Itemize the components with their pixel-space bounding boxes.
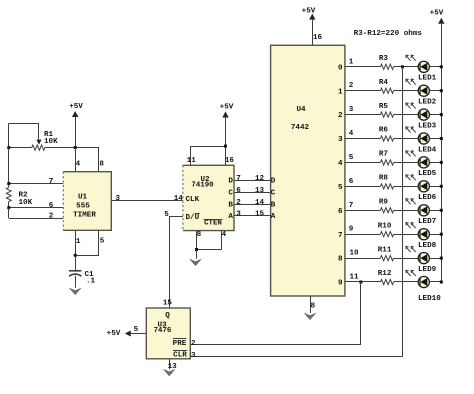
- LED8: [406, 223, 437, 251]
- svg-text:7: 7: [236, 175, 241, 183]
- decoder U4 7442 box: [271, 45, 345, 296]
- svg-text:5: 5: [349, 154, 354, 162]
- svg-text:1: 1: [76, 238, 81, 246]
- LED7: [406, 199, 437, 227]
- power +5V (LED rail): [430, 9, 445, 282]
- svg-text:5: 5: [134, 326, 139, 334]
- svg-text:CLK: CLK: [186, 196, 200, 204]
- node rail junction 8: [440, 233, 443, 236]
- wire left rail: [8, 148, 10, 187]
- svg-text:11: 11: [349, 274, 359, 282]
- node U2 gnd junction: [195, 248, 198, 259]
- wire U4 output 8 (pin 10): [345, 250, 381, 259]
- wire R5 to LED3: [394, 114, 420, 116]
- svg-text:R6: R6: [379, 127, 389, 135]
- LED3: [406, 103, 437, 130]
- svg-text:R5: R5: [379, 103, 389, 111]
- node output0 junction: [401, 65, 404, 68]
- wire U4 output 9 (pin 11): [345, 274, 381, 282]
- wire R6 to LED4: [394, 138, 420, 140]
- resistor R3: [379, 55, 394, 69]
- svg-text:B: B: [228, 202, 233, 210]
- svg-text:R4: R4: [379, 79, 389, 87]
- svg-text:B: B: [271, 202, 276, 210]
- wire B bus: [234, 199, 271, 207]
- wire output9 to U3 PRE: [190, 281, 362, 345]
- svg-text:3: 3: [115, 195, 120, 203]
- node +5V junction: [74, 146, 77, 149]
- svg-text:LED3: LED3: [418, 122, 437, 130]
- svg-text:R9: R9: [379, 199, 389, 207]
- svg-text:A: A: [271, 213, 276, 221]
- resistor R11: [378, 246, 394, 260]
- svg-text:+5V: +5V: [302, 7, 316, 15]
- wire U1 pin 7: [9, 178, 64, 186]
- svg-text:12: 12: [255, 175, 265, 183]
- ground (U3): [164, 369, 175, 376]
- svg-text:8: 8: [311, 302, 316, 310]
- wire U1 pin 6: [9, 202, 64, 211]
- svg-text:7: 7: [338, 232, 343, 240]
- svg-text:6: 6: [338, 208, 343, 216]
- svg-text:LED5: LED5: [418, 170, 437, 178]
- svg-text:1: 1: [349, 58, 354, 66]
- svg-text:9: 9: [349, 226, 354, 234]
- wire R7 to LED5: [394, 162, 420, 164]
- svg-text:D/U: D/U: [186, 214, 200, 222]
- svg-text:C: C: [271, 190, 276, 198]
- svg-text:6: 6: [49, 202, 54, 210]
- svg-text:PRE: PRE: [173, 340, 187, 348]
- svg-text:LED10: LED10: [418, 295, 441, 303]
- node rail junction 3: [440, 113, 443, 116]
- wire U4 output 7 (pin 9): [345, 226, 381, 235]
- svg-text:A: A: [228, 213, 233, 221]
- svg-text:R7: R7: [379, 151, 389, 159]
- U2 CTEN pin label: [204, 220, 223, 228]
- U3 pin 15 label: [163, 300, 173, 308]
- wire LED5 to rail: [429, 162, 441, 164]
- svg-text:R3-R12=220 ohms: R3-R12=220 ohms: [354, 30, 423, 38]
- svg-text:8: 8: [99, 161, 104, 169]
- svg-text:4: 4: [76, 161, 81, 169]
- LED9: [406, 246, 437, 274]
- U4 input letters: [271, 178, 276, 222]
- wire LED1 to rail: [429, 66, 441, 68]
- svg-text:16: 16: [225, 157, 235, 165]
- svg-text:D: D: [271, 178, 276, 186]
- resistor R7: [379, 151, 394, 165]
- wire U4 pin 8 ground: [311, 296, 316, 313]
- wire LED4 to rail: [429, 138, 441, 140]
- U3 pin 2 label: [191, 340, 196, 348]
- svg-text:8: 8: [197, 231, 202, 239]
- svg-text:13: 13: [255, 187, 265, 195]
- wire R9 to LED7: [394, 210, 420, 212]
- power +5V (U3 pin 5): [107, 326, 147, 338]
- U3 PRE pin label: [173, 339, 187, 349]
- wire U4 output 1 (pin 2): [345, 82, 381, 90]
- svg-text:3: 3: [236, 210, 241, 218]
- wire U1 pin 2: [9, 208, 64, 221]
- wire U1 pin 8 drop: [99, 148, 105, 172]
- LED4: [406, 127, 437, 155]
- wire U4 output 2 (pin 3): [345, 106, 381, 114]
- svg-text:8: 8: [338, 256, 343, 264]
- svg-text:9: 9: [338, 280, 343, 288]
- svg-text:.1: .1: [86, 278, 96, 286]
- svg-text:LED1: LED1: [418, 75, 437, 83]
- wire U4 output 3 (pin 4): [345, 130, 381, 139]
- wire U4 output 0 (pin 1): [345, 58, 381, 66]
- note R3-R12=220 ohms: [354, 30, 423, 38]
- svg-text:10K: 10K: [44, 138, 58, 146]
- U4 output digits: [338, 64, 343, 287]
- node rail junction 9: [440, 257, 443, 260]
- svg-text:2: 2: [49, 212, 54, 220]
- svg-text:LED8: LED8: [418, 242, 437, 250]
- svg-text:15: 15: [255, 210, 265, 218]
- U3 CLR pin label: [173, 351, 187, 360]
- resistor R6: [379, 127, 394, 141]
- resistor R8: [379, 175, 394, 189]
- svg-text:74190: 74190: [191, 182, 214, 190]
- svg-text:2: 2: [236, 199, 241, 207]
- node rail junction 7: [440, 209, 443, 212]
- wire R1 top loop: [9, 124, 40, 148]
- U2 label: [191, 176, 214, 190]
- node R1-left junction: [7, 146, 10, 149]
- svg-text:LED7: LED7: [418, 218, 437, 226]
- node pin6 junction: [7, 206, 10, 209]
- wire R12 to LED10: [394, 281, 420, 283]
- wire U1 pin 1: [76, 230, 81, 255]
- U2 CLK pin label: [186, 196, 200, 204]
- svg-text:R10: R10: [378, 222, 392, 230]
- svg-text:6: 6: [236, 187, 241, 195]
- resistor R1: [32, 131, 58, 150]
- ground (C1): [70, 288, 81, 295]
- counter U2 74190 box: [183, 165, 234, 230]
- wire output0 to U3 CLR: [190, 67, 402, 357]
- svg-text:R12: R12: [378, 270, 392, 278]
- resistor R9: [379, 199, 394, 213]
- ground (U4): [304, 313, 315, 320]
- svg-text:LED2: LED2: [418, 99, 437, 107]
- U3 pin 3 label: [191, 352, 196, 360]
- node pin7 junction: [7, 182, 10, 185]
- capacitor C1: [69, 255, 96, 287]
- wire R11 to LED9: [394, 258, 420, 260]
- svg-text:R3: R3: [379, 55, 389, 63]
- power +5V (U4 supply): [302, 7, 323, 45]
- wire U4 output 5 (pin 6): [345, 178, 381, 187]
- svg-text:5: 5: [164, 211, 169, 219]
- wire LED2 to rail: [429, 90, 441, 92]
- resistor R4: [379, 79, 394, 93]
- svg-text:13: 13: [168, 363, 178, 371]
- resistor R12: [378, 270, 394, 284]
- wire LED3 to rail: [429, 114, 441, 116]
- node pin1 junction: [74, 254, 77, 257]
- svg-text:LED4: LED4: [418, 146, 437, 154]
- svg-text:+5V: +5V: [69, 103, 83, 111]
- node rail junction 4: [440, 137, 443, 140]
- resistor R2: [6, 188, 32, 207]
- wire U4 output 6 (pin 7): [345, 202, 381, 211]
- svg-text:CTEN: CTEN: [204, 220, 222, 228]
- svg-text:CLR: CLR: [173, 352, 187, 360]
- svg-text:14: 14: [174, 195, 184, 203]
- node rail junction 2: [440, 89, 443, 92]
- wire R4 to LED2: [394, 90, 420, 92]
- svg-text:U1: U1: [78, 193, 88, 201]
- wire U2 D/U to U3 Q: [164, 211, 183, 308]
- svg-text:7: 7: [49, 178, 54, 186]
- svg-text:1: 1: [338, 88, 343, 96]
- wire LED8 to rail: [429, 234, 441, 236]
- node rail junction 6: [440, 185, 443, 188]
- wire LED7 to rail: [429, 210, 441, 212]
- wire U1 pin 5: [75, 230, 105, 255]
- U4 label: [291, 106, 310, 132]
- svg-text:5: 5: [338, 184, 343, 192]
- U2 D/U pin label: [186, 214, 200, 222]
- svg-text:16: 16: [313, 34, 323, 42]
- wire U2 pin 4 ground: [197, 231, 227, 250]
- svg-text:R8: R8: [379, 175, 389, 183]
- wire LED6 to rail: [429, 186, 441, 188]
- wire U1 pin 3 to U2 CLK: [111, 195, 183, 203]
- power +5V (U2 supply): [220, 103, 234, 165]
- svg-text:7: 7: [349, 202, 354, 210]
- svg-text:3: 3: [191, 352, 196, 360]
- wire U2 pin 8 ground: [197, 231, 202, 250]
- svg-text:10K: 10K: [19, 199, 33, 207]
- svg-text:R11: R11: [378, 246, 392, 254]
- svg-text:4: 4: [338, 160, 343, 168]
- svg-text:TIMER: TIMER: [73, 211, 96, 219]
- svg-text:7442: 7442: [291, 124, 310, 132]
- U3 label: [154, 322, 172, 335]
- svg-text:+5V: +5V: [107, 330, 121, 338]
- svg-text:D: D: [228, 178, 233, 186]
- flip-flop U3 7476 box: [146, 308, 190, 359]
- svg-text:3: 3: [349, 106, 354, 114]
- svg-text:14: 14: [255, 199, 265, 207]
- svg-text:2: 2: [349, 82, 354, 90]
- LED6: [406, 175, 437, 202]
- svg-text:C: C: [228, 190, 233, 198]
- svg-text:4: 4: [349, 130, 354, 138]
- resistor R5: [379, 103, 394, 117]
- LED10: [406, 270, 441, 303]
- svg-text:Q: Q: [165, 312, 170, 320]
- svg-text:6: 6: [349, 178, 354, 186]
- svg-text:3: 3: [338, 136, 343, 144]
- wire LED10 to rail: [429, 281, 441, 283]
- LED1: [406, 55, 437, 83]
- wire U4 output 4 (pin 5): [345, 154, 381, 163]
- wire C bus: [234, 187, 271, 195]
- wire U3 pin 13 ground: [168, 359, 178, 371]
- wire R10 to LED8: [394, 234, 420, 236]
- svg-text:0: 0: [338, 64, 343, 72]
- wire R3 to LED1: [394, 66, 420, 68]
- svg-text:555: 555: [76, 203, 90, 211]
- wire R8 to LED6: [394, 186, 420, 188]
- resistor R10: [378, 222, 394, 236]
- node rail junction 10: [440, 281, 443, 284]
- wire U2 pin 11 loop: [187, 146, 235, 165]
- svg-text:+5V: +5V: [430, 9, 444, 17]
- node U2 vcc junction: [224, 145, 227, 148]
- U3 Q label: [165, 312, 170, 320]
- node rail junction 5: [440, 161, 443, 164]
- svg-text:LED9: LED9: [418, 266, 437, 274]
- wire U1 pin 4 drop: [76, 148, 81, 172]
- op-amp U1 555 timer box: [63, 172, 111, 231]
- LED5: [406, 151, 437, 179]
- svg-text:+5V: +5V: [220, 103, 234, 111]
- node rail junction 1: [440, 65, 443, 68]
- svg-text:5: 5: [100, 238, 105, 246]
- wire A bus: [234, 210, 271, 218]
- svg-text:4: 4: [222, 231, 227, 239]
- R1 wiper arrow: [36, 140, 41, 145]
- ground (U2): [190, 259, 201, 266]
- svg-text:15: 15: [163, 300, 173, 308]
- U1 label: [73, 193, 96, 219]
- svg-text:LED6: LED6: [418, 194, 437, 202]
- wire R1 row: [9, 147, 99, 149]
- wire LED9 to rail: [429, 258, 441, 260]
- svg-text:U4: U4: [296, 106, 306, 114]
- svg-text:7476: 7476: [154, 327, 172, 335]
- LED2: [406, 79, 437, 107]
- U2 output letters: [228, 178, 233, 222]
- svg-text:2: 2: [338, 112, 343, 120]
- svg-text:11: 11: [187, 157, 197, 165]
- wire D bus: [234, 175, 271, 183]
- svg-text:10: 10: [349, 250, 359, 258]
- power +5V (U1 supply): [69, 103, 83, 148]
- svg-text:2: 2: [191, 340, 196, 348]
